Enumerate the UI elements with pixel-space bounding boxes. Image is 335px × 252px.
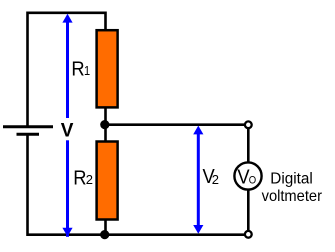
svg-text:voltmeter: voltmeter: [262, 188, 322, 205]
svg-text:2: 2: [212, 172, 219, 187]
svg-text:V: V: [237, 165, 249, 188]
svg-text:Digital: Digital: [270, 171, 313, 188]
svg-text:R: R: [73, 166, 86, 189]
svg-text:1: 1: [84, 63, 90, 78]
svg-text:2: 2: [86, 172, 93, 187]
svg-text:V: V: [61, 121, 74, 142]
svg-text:R: R: [71, 58, 84, 81]
svg-text:O: O: [249, 175, 256, 187]
